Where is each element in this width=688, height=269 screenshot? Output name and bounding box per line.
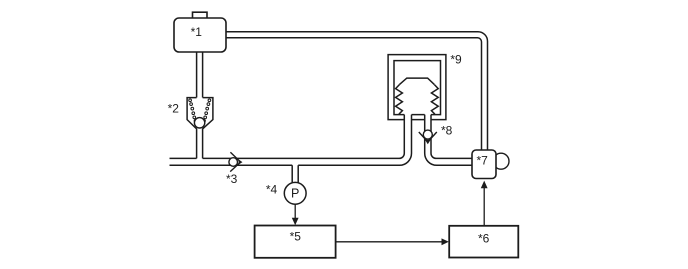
svg-text:*4: *4	[266, 183, 278, 197]
svg-text:*1: *1	[191, 25, 203, 39]
svg-text:*3: *3	[226, 172, 238, 186]
svg-text:*7: *7	[477, 154, 489, 168]
svg-text:*2: *2	[168, 102, 180, 116]
svg-text:*8: *8	[441, 124, 453, 138]
svg-text:*5: *5	[290, 229, 302, 243]
svg-text:*6: *6	[478, 232, 490, 246]
svg-text:*9: *9	[450, 53, 462, 67]
svg-text:P: P	[291, 186, 299, 200]
